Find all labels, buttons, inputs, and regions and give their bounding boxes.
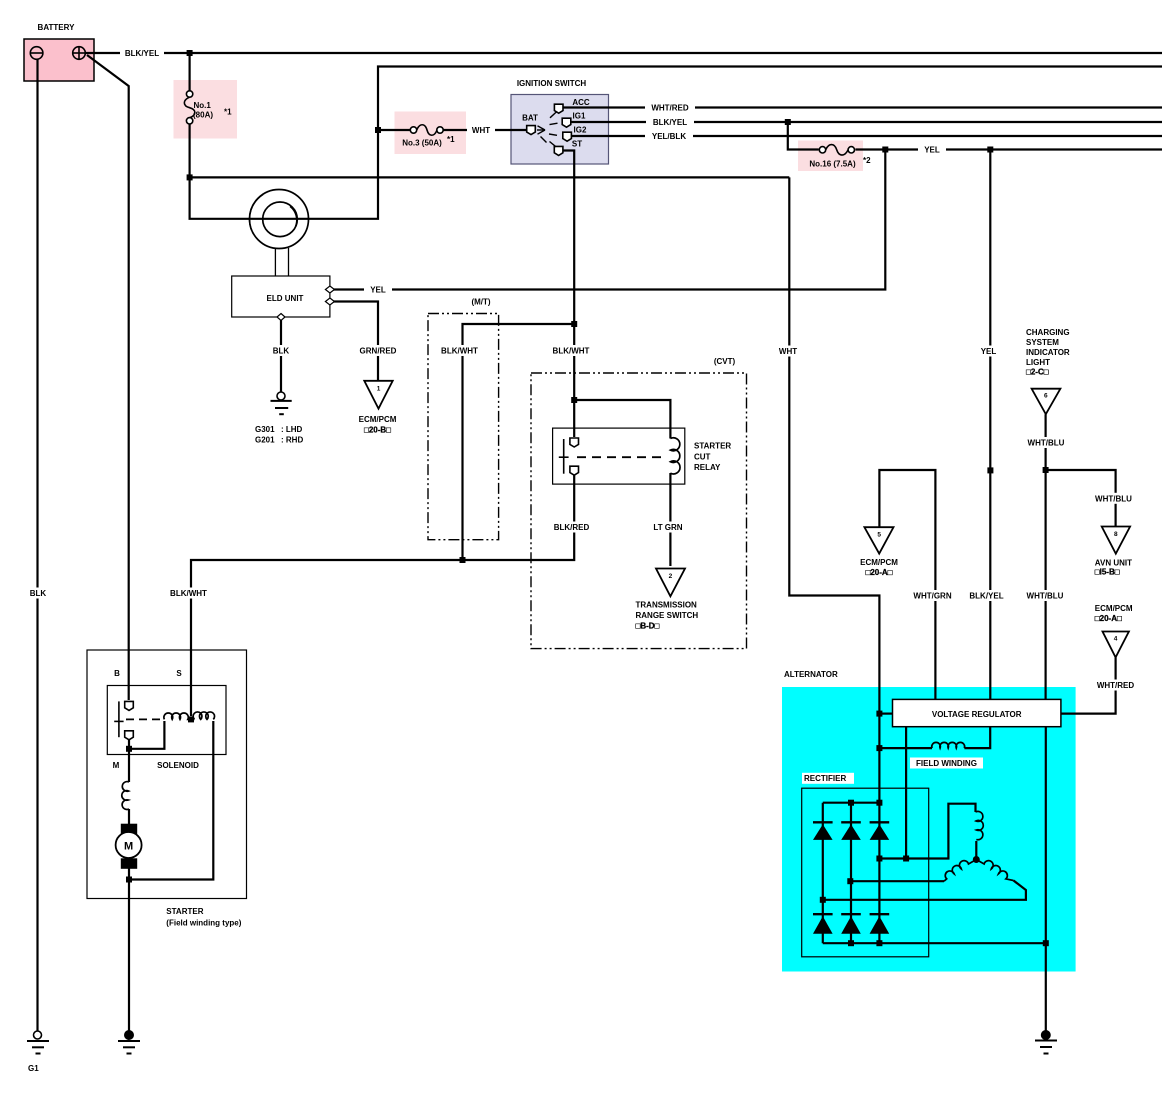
svg-text:G1: G1 (28, 1064, 39, 1073)
svg-text:YEL: YEL (981, 347, 997, 356)
svg-text:YEL: YEL (924, 146, 940, 155)
label wire BLK/YEL (646, 117, 694, 128)
starter cut relay contact terminal bottom (570, 466, 579, 475)
junction rectifier bottom leg2 (848, 940, 854, 946)
wire ACC WHT/RED bus L3 (562, 106, 1162, 108)
wire solenoid coil2 down to motor bottom (129, 721, 213, 880)
wire WHT/GRN to ECM triangle 5 (879, 470, 935, 699)
wire ELD BLK to G301 (280, 317, 282, 392)
svg-text:LIGHT: LIGHT (1026, 358, 1050, 367)
ignition switch ACC terminal (550, 104, 563, 118)
label STARTER CUT RELAY (694, 442, 731, 472)
svg-text:GRN/RED: GRN/RED (360, 347, 397, 356)
label charging system indicator light (1026, 328, 1070, 377)
wire fuse No.3 branch (378, 129, 411, 131)
diode D1 upper (813, 822, 833, 840)
label fuse No.1 (193, 101, 232, 120)
svg-text:RECTIFIER: RECTIFIER (804, 774, 846, 783)
wire WHT/BLU branch to AVN unit (1046, 470, 1116, 527)
diode D6 lower (870, 914, 890, 934)
svg-text:□2-C□: □2-C□ (1026, 368, 1049, 377)
label FIELD WINDING (910, 758, 983, 769)
ignition switch dash to IG1 (550, 123, 558, 124)
solenoid dashed link (126, 718, 161, 720)
svg-text:4: 4 (1114, 636, 1118, 643)
svg-text:8: 8 (1114, 531, 1118, 538)
diode D5 lower (841, 914, 861, 934)
label wire WHT/RED (645, 102, 695, 113)
label ECM/PCM 20-A right (1095, 604, 1133, 623)
ground G1 (27, 1031, 49, 1054)
svg-text:6: 6 (1044, 393, 1048, 400)
label wire YEL bus (918, 144, 946, 155)
label wire WHT/BLU alt (1021, 590, 1069, 601)
wire stator phase A to centre (975, 841, 977, 860)
solenoid box (107, 686, 226, 755)
junction YEL alternator tap (987, 147, 993, 153)
field winding coil (932, 742, 965, 748)
wire relay BLK/RED down and left to solenoid S (191, 475, 574, 716)
svg-text:FIELD WINDING: FIELD WINDING (916, 759, 977, 768)
ignition switch BAT terminal (527, 126, 536, 135)
wire YEL bus L6 after fuse (856, 148, 1162, 150)
svg-text:IG1: IG1 (573, 112, 586, 121)
alternator box (782, 687, 1076, 972)
svg-text:□20-A□: □20-A□ (865, 568, 892, 577)
svg-text:: LHD: : LHD (281, 425, 303, 434)
svg-text:No.1: No.1 (194, 101, 212, 110)
svg-text:S: S (176, 669, 182, 678)
wire stator phase B tap (850, 880, 944, 882)
rectifier box (802, 788, 929, 957)
svg-text:BLK/YEL: BLK/YEL (969, 592, 1003, 601)
solenoid M terminal (125, 731, 134, 740)
wire ST down through M/T and CVT (563, 151, 574, 438)
svg-text:BATTERY: BATTERY (38, 23, 76, 32)
svg-text:VOLTAGE REGULATOR: VOLTAGE REGULATOR (932, 710, 1022, 719)
junction fuse No.3 tap (375, 127, 381, 133)
svg-text:WHT/BLU: WHT/BLU (1027, 592, 1064, 601)
label wire YEL/BLK (645, 131, 693, 142)
diode D4 lower (813, 914, 833, 934)
battery negative terminal (30, 47, 43, 60)
wire ELD GRN/RED to triangle 1 (330, 302, 378, 381)
label wire WHT/RED right (1092, 680, 1140, 691)
svg-text:□20-A□: □20-A□ (1095, 614, 1122, 623)
fuse No.3 (410, 125, 443, 136)
wire IG2 YEL/BLK bus L5 (571, 135, 1162, 137)
stator phase B coil (944, 860, 976, 882)
junction ground rail (1043, 940, 1049, 946)
fuse No.1 (184, 91, 195, 124)
battery positive terminal (72, 46, 85, 59)
wire fuse No.3 to BAT terminal (443, 129, 527, 131)
ignition switch ST terminal (550, 142, 563, 156)
wire rectifier top rail (823, 802, 880, 804)
wire YEL down to voltage regulator (989, 150, 991, 700)
svg-text:INDICATOR: INDICATOR (1026, 348, 1070, 357)
fuse No.16 highlight (798, 141, 863, 172)
svg-text:ECM/PCM: ECM/PCM (359, 415, 397, 424)
ignition switch contact arrow (537, 126, 547, 143)
wire node A to WHT drop L7 (190, 176, 790, 178)
label wire LT GRN (646, 522, 690, 533)
svg-text:ECM/PCM: ECM/PCM (860, 558, 898, 567)
svg-text:(80A): (80A) (193, 111, 213, 120)
label wire BLK (268, 345, 294, 356)
svg-text:ACC: ACC (572, 98, 590, 107)
svg-text:SYSTEM: SYSTEM (1026, 338, 1059, 347)
junction MT BLK/RED (460, 557, 466, 563)
svg-text:BLK/WHT: BLK/WHT (553, 347, 590, 356)
svg-text:BLK/YEL: BLK/YEL (653, 118, 687, 127)
junction phase C leg1 (820, 897, 826, 903)
wire relay LT GRN to triangle 2 (669, 473, 671, 566)
label wire WHT (467, 125, 495, 136)
CVT dashed box (531, 373, 747, 649)
svg-text:*2: *2 (863, 156, 871, 165)
svg-text:M: M (124, 841, 133, 853)
junction YEL splice (987, 467, 993, 473)
svg-text:BLK/YEL: BLK/YEL (125, 49, 159, 58)
svg-text:RELAY: RELAY (694, 463, 721, 472)
wire motor armature to brush (128, 809, 130, 824)
junction IG1 to fuse 16 (785, 119, 791, 125)
junction phase A leg3 (876, 856, 882, 862)
svg-text:WHT/BLU: WHT/BLU (1028, 439, 1065, 448)
fuse No.3 highlight (395, 112, 467, 155)
ELD connector pin GRN/RED (325, 298, 334, 305)
label STARTER (166, 907, 241, 928)
ELD unit box (232, 276, 330, 317)
motor brush bottom (121, 858, 137, 869)
junction field winding left (876, 745, 882, 751)
label fuse No.3 (402, 135, 455, 148)
svg-text:YEL/BLK: YEL/BLK (652, 132, 686, 141)
svg-text:IGNITION SWITCH: IGNITION SWITCH (517, 79, 587, 88)
fuse No.1 highlight (174, 80, 238, 139)
svg-text:BLK/RED: BLK/RED (554, 523, 590, 532)
starter cut relay box (553, 428, 685, 484)
label wire BLK/WHT starter (166, 588, 211, 599)
label TRANSMISSION RANGE SWITCH (636, 601, 699, 631)
fuse No.16 (819, 145, 854, 156)
wire regulator sense to stator (905, 727, 907, 859)
triangle 2 TRANSMISSION RANGE SWITCH (656, 569, 685, 597)
label wire WHT alt (774, 346, 802, 357)
svg-text:AVN UNIT: AVN UNIT (1095, 558, 1132, 567)
ground alternator (1035, 1031, 1057, 1054)
label wire BLK/RED (548, 522, 595, 533)
svg-text:□I5-B□: □I5-B□ (1095, 568, 1120, 577)
svg-text:BAT: BAT (522, 114, 538, 123)
label RECTIFIER (802, 773, 854, 784)
wire battery plus diagonal BLK down (87, 55, 129, 700)
svg-text:STARTER: STARTER (694, 442, 731, 451)
voltage regulator box (893, 699, 1061, 726)
junction sense stator (903, 856, 909, 862)
solenoid coil 1 (164, 713, 194, 719)
ignition switch IG1 terminal (562, 118, 571, 127)
wire rectifier leg 2 (850, 803, 852, 944)
wire rectifier bottom rail (823, 942, 1046, 944)
junction regulator B+ (876, 711, 882, 717)
junction phase B leg2 (847, 878, 853, 884)
label wire YEL ELD (364, 284, 392, 295)
wire field winding right to regulator (964, 727, 990, 748)
triangle 1 ECM/PCM (364, 381, 392, 409)
label ECM/PCM 20-B (359, 415, 397, 435)
wire solenoid M to motor (128, 739, 130, 782)
svg-text:B: B (114, 669, 120, 678)
svg-text:BLK: BLK (273, 347, 290, 356)
wire stator phase A tap (879, 804, 975, 859)
svg-text:WHT/RED: WHT/RED (1097, 681, 1135, 690)
label wire BLK/WHT mt (437, 345, 482, 356)
junction WHT/BLU split (1043, 467, 1049, 473)
wire motor bottom to starter ground (128, 868, 130, 1031)
ignition switch IG2 terminal (563, 132, 572, 141)
junction battery bus (187, 50, 193, 56)
junction YEL ELD tap (882, 147, 888, 153)
label wire WHT/BLU top (1022, 437, 1070, 448)
label wire BLK/WHT st (549, 345, 594, 356)
diode D2 upper (841, 822, 861, 840)
svg-text:ECM/PCM: ECM/PCM (1095, 604, 1133, 613)
svg-text:WHT: WHT (779, 347, 797, 356)
wire IG1 BLK/YEL bus L4 (570, 121, 1162, 123)
wire IG1 node to fuse No.16 (788, 122, 819, 150)
junction rectifier top leg3 (876, 800, 882, 806)
label ground G301 G201 (255, 425, 303, 445)
svg-text:WHT/BLU: WHT/BLU (1095, 494, 1132, 503)
svg-text:2: 2 (669, 573, 673, 580)
svg-text:□B-D□: □B-D□ (636, 622, 660, 631)
wire charging light WHT/BLU (1044, 414, 1046, 699)
label wire BLK/YEL top (120, 48, 164, 59)
svg-text:(Field winding type): (Field winding type) (166, 919, 241, 928)
triangle 6 charging system indicator light (1032, 389, 1061, 415)
svg-text:YEL: YEL (370, 286, 386, 295)
motor brush top (121, 824, 137, 835)
svg-text:BLK/WHT: BLK/WHT (170, 589, 207, 598)
wire regulator left stub (879, 712, 892, 714)
starter cut relay contact terminal top (570, 438, 579, 447)
solenoid B terminal (125, 701, 134, 710)
label wire BLK left (25, 588, 51, 599)
label wire WHT/BLU avn (1090, 493, 1138, 504)
wire WHT from L7 down to alternator (789, 177, 879, 802)
svg-text:LT GRN: LT GRN (653, 523, 682, 532)
wire fuse No.1 to node and ELD sensor and bus L2 (190, 67, 1162, 219)
label ECM/PCM 20-A mid (860, 558, 898, 577)
wire BLK/YEL bus L1 (85, 52, 1162, 54)
label AVN UNIT (1095, 558, 1132, 576)
svg-text:G201: G201 (255, 436, 275, 445)
wire rectifier leg 1 (822, 803, 824, 944)
svg-text:STARTER: STARTER (166, 907, 203, 916)
svg-text:TRANSMISSION: TRANSMISSION (636, 601, 698, 610)
svg-text:WHT/RED: WHT/RED (651, 104, 689, 113)
wire fuse No.1 feed (189, 53, 191, 92)
svg-text:CUT: CUT (694, 452, 711, 461)
label fuse No.16 (809, 156, 871, 168)
svg-text:No.3 (50A): No.3 (50A) (402, 139, 442, 148)
junction fuse No.1 bottom (187, 174, 193, 180)
svg-text:SOLENOID: SOLENOID (157, 761, 199, 770)
ignition switch box (511, 95, 609, 165)
junction rectifier bottom leg3 (876, 940, 882, 946)
solenoid contact bar (114, 701, 123, 737)
svg-text:CHARGING: CHARGING (1026, 328, 1070, 337)
svg-text:BLK/WHT: BLK/WHT (441, 347, 478, 356)
wire YEL node down to ELD YEL (332, 150, 885, 290)
ground G301 (271, 392, 292, 414)
stator phase C coil (976, 860, 1013, 881)
starter cut relay dashed link (577, 456, 663, 458)
wire starter cut relay coil feed (574, 400, 670, 439)
svg-text:1: 1 (377, 386, 381, 393)
wire rectifier leg 3 (878, 803, 880, 944)
stator phase A coil (976, 811, 984, 839)
svg-text:WHT/GRN: WHT/GRN (913, 592, 951, 601)
wire starter solenoid M loop (129, 721, 164, 749)
svg-text:BLK: BLK (30, 589, 47, 598)
junction starter bottom (126, 877, 132, 883)
junction relay coil branch (571, 397, 577, 403)
ground G2 starter (118, 1031, 140, 1054)
diode D3 upper (870, 822, 890, 840)
svg-text:5: 5 (877, 532, 881, 539)
wire regulator ground (1045, 727, 1047, 1031)
svg-text:No.16 (7.5A): No.16 (7.5A) (809, 159, 856, 168)
junction solenoid M (126, 746, 132, 752)
triangle 4 ECM/PCM (1103, 632, 1129, 658)
label wire YEL alt (975, 346, 1002, 357)
ELD connector pin BLK (277, 314, 285, 321)
wire battery minus BLK down to G1 (36, 59, 38, 1031)
svg-text:RANGE SWITCH: RANGE SWITCH (636, 611, 699, 620)
label wire WHT/GRN (908, 590, 957, 601)
wire M/T BLK/WHT branch (463, 324, 575, 560)
motor field coil (122, 782, 129, 810)
svg-text:: RHD: : RHD (281, 436, 303, 445)
svg-text:WHT: WHT (472, 126, 490, 135)
battery box (24, 39, 94, 81)
junction ST MT branch (571, 321, 577, 327)
svg-text:ELD UNIT: ELD UNIT (267, 294, 304, 303)
label wire GRN/RED (354, 345, 402, 356)
triangle 5 ECM/PCM (864, 527, 893, 553)
solenoid coil 2 (193, 712, 214, 719)
svg-text:*1: *1 (224, 108, 232, 117)
ignition switch dash to IG2 (549, 134, 557, 135)
svg-text:G301: G301 (255, 425, 275, 434)
svg-text:(M/T): (M/T) (471, 298, 490, 307)
M/T dashed box (428, 314, 499, 540)
wire field winding left (879, 747, 932, 749)
wire stator phase C tap (823, 881, 1026, 900)
svg-text:ALTERNATOR: ALTERNATOR (784, 670, 838, 679)
junction solenoid S coil (188, 716, 194, 722)
ELD connector pin YEL (325, 286, 334, 293)
label wire BLK/YEL alt (963, 590, 1010, 601)
ELD current sensor ring (249, 190, 308, 277)
starter outer box (87, 650, 247, 899)
svg-text:□20-B□: □20-B□ (364, 426, 391, 435)
starter cut relay coil (670, 438, 680, 474)
junction rectifier top leg2 (848, 800, 854, 806)
svg-text:ST: ST (572, 140, 582, 149)
motor M (116, 832, 142, 858)
svg-text:IG2: IG2 (574, 126, 587, 135)
junction stator centre (973, 856, 980, 863)
triangle 8 AVN unit (1102, 527, 1130, 554)
svg-text:M: M (113, 761, 120, 770)
starter cut relay contact bar (559, 439, 569, 474)
wire ECM triangle 4 WHT/RED to regulator (1061, 657, 1116, 713)
svg-text:(CVT): (CVT) (714, 357, 736, 366)
svg-text:*1: *1 (447, 135, 455, 144)
